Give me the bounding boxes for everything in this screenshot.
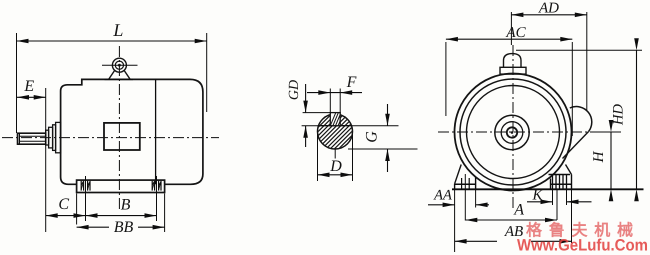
svg-text:E: E — [23, 78, 34, 95]
dimension G — [351, 125, 398, 127]
svg-text:A: A — [513, 202, 524, 219]
keyway flat line — [318, 125, 351, 127]
terminal box (side view) — [104, 123, 140, 150]
svg-text:K: K — [531, 187, 543, 203]
dimension E — [45, 88, 47, 232]
svg-text:G: G — [364, 131, 381, 143]
svg-text:HD: HD — [611, 104, 627, 126]
svg-text:AA: AA — [433, 188, 452, 204]
dimension AD — [510, 12, 512, 45]
dimension GD — [303, 112, 331, 114]
foot bolt slot left — [80, 181, 82, 191]
terminal box lobe — [570, 107, 592, 132]
dimension B — [156, 176, 158, 221]
dimension F — [329, 89, 331, 114]
rim circle 3 — [467, 86, 560, 179]
wire — [438, 131, 622, 133]
shaft thread lines — [18, 133, 20, 144]
dimension AB — [571, 190, 573, 243]
shaft — [18, 133, 46, 144]
svg-text:B: B — [121, 197, 131, 214]
svg-text:AD: AD — [538, 0, 559, 16]
lifting eye (side view) — [112, 58, 126, 72]
dimension A — [556, 190, 558, 220]
foot plate (side view) — [77, 180, 165, 192]
bearing cap steps — [46, 130, 49, 145]
left foot bolt centerline — [464, 174, 466, 221]
motor body (side view) — [61, 79, 203, 184]
wire — [334, 148, 336, 159]
hub circles — [495, 115, 529, 149]
wire — [118, 46, 120, 212]
svg-text:AC: AC — [505, 25, 526, 41]
dimension AC — [445, 42, 447, 116]
dimension L — [16, 33, 18, 133]
lifting eye (end view) — [500, 67, 526, 74]
dimension D — [317, 134, 319, 181]
svg-text:H: H — [591, 150, 607, 163]
svg-text:Www.GeLufu.Com: Www.GeLufu.Com — [517, 236, 648, 254]
foot bolt slot right — [151, 181, 153, 191]
right foot (end view) — [549, 174, 571, 176]
ground line — [452, 188, 644, 190]
end-bell seam line — [155, 79, 157, 184]
shaft section circle — [318, 114, 353, 149]
svg-text:D: D — [329, 158, 342, 175]
wire — [512, 45, 514, 210]
svg-text:BB: BB — [114, 219, 134, 236]
svg-text:L: L — [112, 20, 123, 40]
dimension C — [76, 194, 78, 225]
svg-text:GD: GD — [287, 80, 302, 100]
left foot (end view) — [455, 165, 462, 184]
rim circle 2 — [460, 79, 566, 185]
outer frame circle — [455, 74, 572, 191]
dimension AA — [454, 190, 456, 252]
dimension H — [591, 131, 621, 133]
key — [330, 113, 340, 126]
dimension HD — [516, 49, 642, 51]
svg-text:F: F — [346, 74, 357, 91]
dimension K — [552, 189, 554, 205]
svg-text:C: C — [58, 196, 69, 213]
wire — [2, 137, 219, 139]
dimension BB — [164, 194, 166, 233]
